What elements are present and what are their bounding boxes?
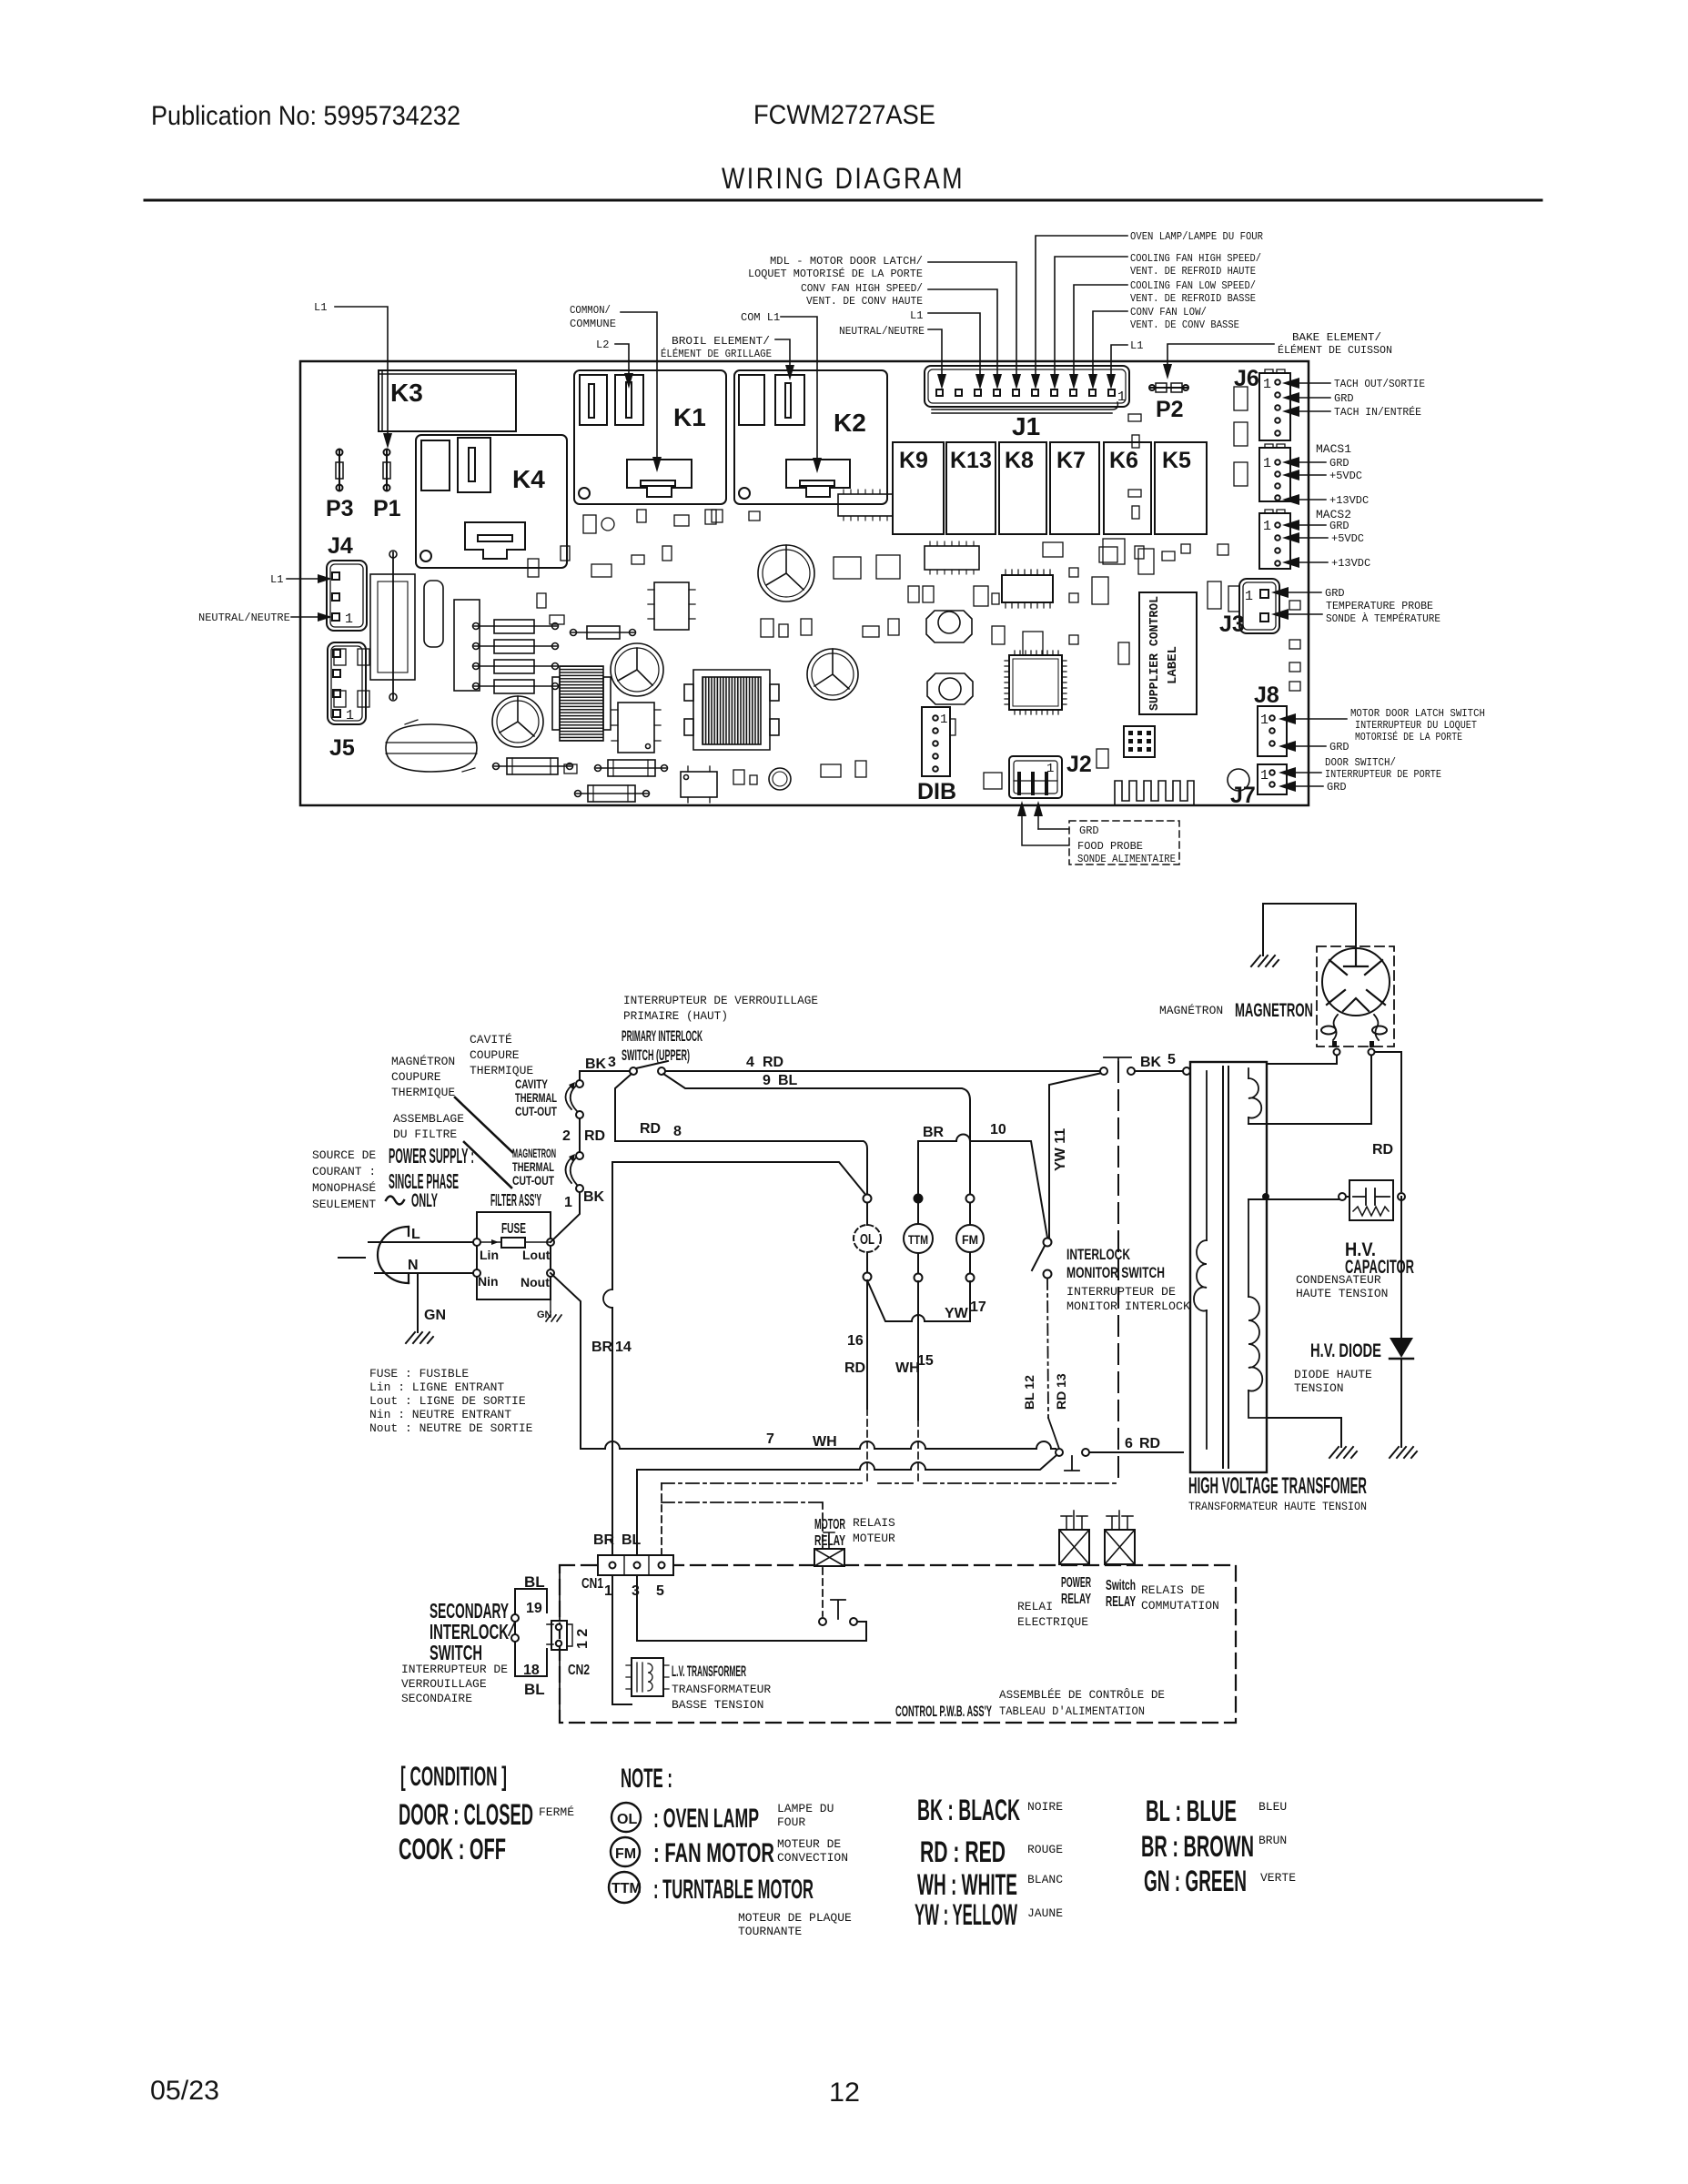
svg-text:1: 1 xyxy=(345,612,353,627)
jumper wire W1 xyxy=(389,551,397,701)
svg-text:NEUTRAL/NEUTRE: NEUTRAL/NEUTRE xyxy=(839,325,925,338)
svg-text:VENT. DE REFROID BASSE: VENT. DE REFROID BASSE xyxy=(1130,292,1256,305)
svg-text:J6: J6 xyxy=(1234,366,1259,391)
svg-text:DOOR : CLOSED: DOOR : CLOSED xyxy=(399,1798,533,1831)
label L1 at J4 xyxy=(270,573,332,586)
label RD 8 xyxy=(640,1121,682,1139)
svg-text:1: 1 xyxy=(1263,519,1271,534)
label ASSEMBLEE DE CONTROLE xyxy=(999,1688,1165,1718)
relay K6 xyxy=(1104,442,1151,534)
svg-text:INTERLOCK: INTERLOCK xyxy=(1066,1246,1131,1263)
header group xyxy=(145,100,1541,200)
svg-text:K5: K5 xyxy=(1162,448,1191,473)
svg-text:COOK : OFF: COOK : OFF xyxy=(399,1833,506,1865)
svg-text:RD: RD xyxy=(1372,1142,1393,1158)
label MAGNETRON xyxy=(1159,1000,1313,1021)
svg-text:NOIRE: NOIRE xyxy=(1027,1800,1063,1814)
svg-text:MONITOR SWITCH: MONITOR SWITCH xyxy=(1066,1264,1165,1281)
svg-text:MAGNETRON: MAGNETRON xyxy=(512,1146,556,1160)
svg-text:BR : BROWN: BR : BROWN xyxy=(1141,1830,1254,1863)
svg-text:TENSION: TENSION xyxy=(1294,1381,1344,1395)
capacitor C6 film xyxy=(454,600,480,691)
svg-text:BRUN: BRUN xyxy=(1258,1834,1287,1847)
label MAGNETRON COUPURE THERMIQUE xyxy=(391,1055,455,1099)
svg-text:RD: RD xyxy=(844,1360,865,1376)
label GRD J3 xyxy=(1271,587,1345,600)
high voltage transformer xyxy=(1190,1062,1267,1472)
svg-text:TRANSFORMATEUR: TRANSFORMATEUR xyxy=(672,1683,771,1696)
svg-text:ÉLÉMENT DE GRILLAGE: ÉLÉMENT DE GRILLAGE xyxy=(661,347,772,360)
svg-text:COUPURE: COUPURE xyxy=(470,1048,520,1062)
wire BR 14 vertical xyxy=(612,1162,613,1556)
wire GN to ground xyxy=(418,1273,446,1332)
wire capacitor to diode xyxy=(1400,1197,1402,1338)
connector J1 xyxy=(925,366,1129,440)
relay K7 xyxy=(1050,442,1099,534)
svg-text:Lin : LIGNE ENTRANT: Lin : LIGNE ENTRANT xyxy=(369,1380,504,1394)
svg-text:INTERRUPTEUR DU LOQUET: INTERRUPTEUR DU LOQUET xyxy=(1355,719,1477,732)
svg-text:19: 19 xyxy=(526,1601,542,1616)
svg-text:10: 10 xyxy=(990,1122,1006,1137)
wire 4 RD top bus xyxy=(665,1070,1100,1072)
svg-text:K6: K6 xyxy=(1109,448,1138,473)
svg-text:L: L xyxy=(411,1227,420,1242)
svg-text:WH: WH xyxy=(813,1434,837,1450)
svg-text:GRD: GRD xyxy=(1334,392,1354,405)
svg-text:1: 1 xyxy=(1260,713,1269,728)
svg-text:MONOPHASÉ: MONOPHASÉ xyxy=(312,1181,376,1195)
svg-text:1: 1 xyxy=(1245,589,1253,604)
svg-text:SWITCH (UPPER): SWITCH (UPPER) xyxy=(622,1046,690,1064)
svg-text:[ CONDITION ]: [ CONDITION ] xyxy=(400,1762,507,1792)
relay K13 xyxy=(946,442,996,534)
svg-text:BL: BL xyxy=(622,1532,642,1548)
svg-text:POWER: POWER xyxy=(1061,1575,1091,1591)
svg-text:BL: BL xyxy=(778,1073,798,1088)
svg-text:OVEN LAMP/LAMPE DU FOUR: OVEN LAMP/LAMPE DU FOUR xyxy=(1130,230,1263,243)
label NEUTRAL/NEUTRE at J4 xyxy=(198,612,332,624)
svg-text:K7: K7 xyxy=(1056,448,1086,473)
svg-text:1 2: 1 2 xyxy=(575,1629,591,1649)
6RD switch contacts xyxy=(1056,1449,1089,1471)
optocoupler U5 xyxy=(681,766,717,803)
svg-text:TACH OUT/SORTIE: TACH OUT/SORTIE xyxy=(1334,378,1425,390)
svg-text:3: 3 xyxy=(608,1055,616,1070)
connector J8 xyxy=(1254,682,1287,756)
wire between cutouts xyxy=(579,1118,581,1152)
svg-text:K9: K9 xyxy=(899,448,928,473)
label 4 RD xyxy=(746,1055,783,1070)
relay K9 xyxy=(893,442,944,534)
svg-text:K2: K2 xyxy=(834,409,866,437)
control PWB dashed box xyxy=(560,1565,1236,1723)
svg-text:VENT. DE CONV BASSE: VENT. DE CONV BASSE xyxy=(1130,318,1239,331)
svg-text:H.V. DIODE: H.V. DIODE xyxy=(1310,1340,1381,1361)
GRD pad circle xyxy=(1228,769,1249,791)
svg-text:GN: GN xyxy=(424,1308,446,1323)
magnetron filament wires xyxy=(1270,1056,1371,1124)
svg-text:HAUTE TENSION: HAUTE TENSION xyxy=(1296,1287,1388,1300)
label 6 RD xyxy=(1125,1436,1160,1451)
resistor R2 xyxy=(473,640,559,653)
svg-text:ROUGE: ROUGE xyxy=(1027,1843,1063,1856)
svg-text:K3: K3 xyxy=(390,379,423,407)
svg-text:FUSE: FUSE xyxy=(501,1221,526,1237)
svg-text:SOURCE DE: SOURCE DE xyxy=(312,1148,376,1162)
svg-text:RD: RD xyxy=(584,1128,605,1144)
wire BK5 to transformer xyxy=(1135,1070,1187,1072)
svg-text:BR: BR xyxy=(591,1340,613,1355)
svg-text:GRD: GRD xyxy=(1079,824,1099,837)
label SECONDARY INTERLOCK SWITCH xyxy=(430,1599,509,1664)
label ASSEMBLAGE DU FILTRE xyxy=(393,1112,464,1141)
callout COM L1 to K2 xyxy=(741,311,822,473)
svg-text:BR: BR xyxy=(923,1125,945,1140)
toroid L4 xyxy=(927,673,973,704)
svg-text:RELAY: RELAY xyxy=(814,1533,845,1549)
svg-text:CN1: CN1 xyxy=(581,1576,603,1592)
wire top bus to primary interlock xyxy=(580,1071,630,1080)
callout L1 right xyxy=(1107,339,1143,389)
svg-text:8: 8 xyxy=(673,1124,682,1139)
svg-text:OL: OL xyxy=(617,1812,637,1827)
svg-text:K1: K1 xyxy=(673,403,706,431)
wire control box left edge through CN2 xyxy=(559,1565,561,1723)
svg-text:N: N xyxy=(408,1258,419,1273)
microcontroller U1 xyxy=(1005,651,1066,714)
power relay xyxy=(1059,1511,1089,1564)
callout L2 to K1 slot xyxy=(596,339,633,389)
wire WH 15 down xyxy=(917,1281,919,1420)
label CAVITE COUPURE THERMIQUE xyxy=(470,1033,533,1077)
svg-text:MOTORISÉ DE LA PORTE: MOTORISÉ DE LA PORTE xyxy=(1355,730,1462,743)
labels 16 RD xyxy=(844,1333,865,1376)
svg-text:J5: J5 xyxy=(329,735,355,761)
svg-text:MDL - MOTOR DOOR LATCH/: MDL - MOTOR DOOR LATCH/ xyxy=(770,255,923,268)
svg-text:YW : YELLOW: YW : YELLOW xyxy=(915,1898,1017,1931)
relay K2 xyxy=(734,370,887,504)
label H.V. CAPACITOR xyxy=(1345,1239,1414,1278)
switch relay xyxy=(1105,1511,1135,1564)
label GRD J7 xyxy=(1279,781,1347,794)
svg-text:LABEL: LABEL xyxy=(1166,646,1180,684)
svg-text:MOTOR: MOTOR xyxy=(814,1517,845,1532)
svg-text:FOOD PROBE: FOOD PROBE xyxy=(1077,840,1143,853)
connector DIB xyxy=(917,707,956,804)
wire filament secondary xyxy=(1248,1064,1371,1124)
magnetron top ground wire xyxy=(1263,904,1356,955)
IC U2 16-pin xyxy=(1002,570,1053,608)
svg-text:17: 17 xyxy=(970,1299,986,1315)
labels 19 18 BL BL xyxy=(523,1573,545,1698)
svg-text:18: 18 xyxy=(523,1663,540,1678)
connector J2 xyxy=(1009,752,1092,798)
small parts row1 xyxy=(528,546,999,606)
svg-text:MOTEUR DE PLAQUE: MOTEUR DE PLAQUE xyxy=(738,1911,852,1925)
svg-text:Lin: Lin xyxy=(480,1248,499,1262)
capacitor C3 electrolytic xyxy=(492,696,543,747)
svg-text:ASSEMBLAGE: ASSEMBLAGE xyxy=(393,1112,464,1126)
svg-text:L1: L1 xyxy=(910,309,923,322)
svg-text:CONTROL P.W.B. ASS'Y: CONTROL P.W.B. ASS'Y xyxy=(895,1703,992,1720)
connector MACS1 xyxy=(1259,444,1290,501)
HV secondary winding xyxy=(1248,1199,1267,1418)
filament winding xyxy=(1248,1068,1249,1124)
wire BL 12 RD 13 dash-dot xyxy=(1047,1279,1048,1418)
svg-text:BAKE ELEMENT/: BAKE ELEMENT/ xyxy=(1292,331,1381,344)
label GRD J8 xyxy=(1279,741,1349,753)
label YW 17 xyxy=(945,1299,986,1321)
connector J3 xyxy=(1219,579,1279,637)
label RELAI ELECTRIQUE xyxy=(1017,1600,1088,1629)
svg-text:1: 1 xyxy=(1263,377,1271,392)
label BK 3 xyxy=(585,1055,616,1072)
svg-text:LAMPE DU: LAMPE DU xyxy=(777,1802,834,1815)
label RELAIS DE COMMUTATION xyxy=(1141,1583,1219,1613)
header rule xyxy=(145,199,1541,202)
svg-text:RD : RED: RD : RED xyxy=(920,1835,1006,1868)
svg-text:YW: YW xyxy=(945,1306,969,1321)
magnetron thermal cut-out switch xyxy=(566,1152,584,1192)
test pin P3 xyxy=(326,450,354,522)
svg-text:GRD: GRD xyxy=(1325,587,1345,600)
bus wire 7 WH xyxy=(581,1441,1056,1449)
wire BR to OL junction xyxy=(612,1162,867,1197)
callout NEUTRAL/NEUTRE to J1 xyxy=(839,325,946,389)
label GRD J6 xyxy=(1282,392,1354,405)
svg-text:BROIL ELEMENT/: BROIL ELEMENT/ xyxy=(672,335,770,348)
svg-text:THERMIQUE: THERMIQUE xyxy=(470,1064,533,1077)
svg-text:+13VDC: +13VDC xyxy=(1331,557,1370,570)
label DOOR SWITCH J7 xyxy=(1279,756,1441,781)
svg-text:K8: K8 xyxy=(1005,448,1034,473)
svg-text:Nout : NEUTRE DE SORTIE: Nout : NEUTRE DE SORTIE xyxy=(369,1421,533,1435)
svg-text:COMMON/: COMMON/ xyxy=(570,304,611,317)
svg-text:NOTE :: NOTE : xyxy=(621,1764,672,1794)
interlock monitor switch xyxy=(1032,1239,1052,1279)
svg-text:COMMUTATION: COMMUTATION xyxy=(1141,1599,1219,1613)
svg-text:6: 6 xyxy=(1125,1436,1133,1451)
resistor R8 power xyxy=(575,785,650,802)
svg-text:K4: K4 xyxy=(512,465,545,493)
label INTERLOCK MONITOR SWITCH xyxy=(1066,1246,1165,1281)
svg-text:MOTEUR: MOTEUR xyxy=(853,1532,895,1545)
svg-text:HIGH VOLTAGE TRANSFOMER: HIGH VOLTAGE TRANSFOMER xyxy=(1188,1473,1367,1499)
wire Nout to BR14 join xyxy=(551,1273,581,1449)
svg-text:+5VDC: +5VDC xyxy=(1329,470,1362,482)
label +13VDC MACS2 xyxy=(1282,557,1370,570)
svg-text:CN2: CN2 xyxy=(568,1663,590,1678)
wire pushbutton loop xyxy=(637,1575,866,1641)
svg-text:GRD: GRD xyxy=(1329,520,1349,532)
magnetron xyxy=(1317,946,1394,1056)
svg-text:GRD: GRD xyxy=(1329,457,1349,470)
svg-text:COM L1: COM L1 xyxy=(741,311,780,324)
svg-text:DIODE HAUTE: DIODE HAUTE xyxy=(1294,1368,1372,1381)
pointer assemblage xyxy=(464,1142,511,1188)
svg-text:RD: RD xyxy=(763,1055,783,1070)
svg-text:: OVEN LAMP: : OVEN LAMP xyxy=(653,1804,759,1834)
svg-text:NEUTRAL/NEUTRE: NEUTRAL/NEUTRE xyxy=(198,612,290,624)
relay K10 tall xyxy=(370,574,415,680)
svg-text:MOTOR DOOR LATCH SWITCH: MOTOR DOOR LATCH SWITCH xyxy=(1350,707,1485,720)
svg-text:INTERRUPTEUR DE: INTERRUPTEUR DE xyxy=(1066,1285,1176,1299)
wire transformer frame ground xyxy=(1267,1418,1341,1447)
small parts row3 xyxy=(564,387,1248,789)
svg-text:1: 1 xyxy=(940,713,947,727)
svg-text:FM: FM xyxy=(962,1232,978,1247)
svg-text:POWER SUPPLY :: POWER SUPPLY : xyxy=(389,1144,474,1168)
svg-text:L1: L1 xyxy=(270,573,283,586)
svg-text:THERMAL: THERMAL xyxy=(512,1159,554,1174)
svg-text:COUPURE: COUPURE xyxy=(391,1070,441,1084)
svg-text:RELAIS DE: RELAIS DE xyxy=(1141,1583,1205,1597)
wire RD 8 xyxy=(615,1074,867,1195)
fuse F1 xyxy=(480,1241,551,1243)
label GRD MACS1 xyxy=(1282,457,1349,470)
svg-text:MAGNETRON: MAGNETRON xyxy=(1235,1000,1313,1021)
svg-text:ASSEMBLÉE DE CONTRÔLE DE: ASSEMBLÉE DE CONTRÔLE DE xyxy=(999,1688,1165,1702)
svg-text:Nin : NEUTRE ENTRANT: Nin : NEUTRE ENTRANT xyxy=(369,1408,511,1421)
wire diode to ground xyxy=(1400,1359,1402,1447)
svg-text:7: 7 xyxy=(766,1431,774,1447)
labels CN1 1 3 5 xyxy=(581,1576,664,1599)
svg-text:ELECTRIQUE: ELECTRIQUE xyxy=(1017,1615,1088,1629)
label MAGNETRON THERMAL CUT-OUT xyxy=(512,1146,556,1188)
svg-text:P3: P3 xyxy=(326,496,354,521)
svg-text:RELAI: RELAI xyxy=(1017,1600,1053,1613)
svg-text:5: 5 xyxy=(656,1583,664,1599)
label 2 RD xyxy=(562,1128,605,1144)
IC U6 xyxy=(925,541,979,574)
svg-text:TTM: TTM xyxy=(612,1881,642,1896)
svg-text:RD 13: RD 13 xyxy=(1054,1373,1068,1410)
svg-text:DOOR SWITCH/: DOOR SWITCH/ xyxy=(1325,756,1396,769)
pointer magnetron coupure xyxy=(455,1097,512,1152)
svg-text:K13: K13 xyxy=(950,448,992,473)
svg-text:Switch: Switch xyxy=(1106,1578,1136,1593)
wire pushbutton feed xyxy=(822,1502,824,1616)
labels 7 WH xyxy=(766,1431,837,1450)
wire TTM feed xyxy=(917,1141,919,1195)
svg-text:BR: BR xyxy=(593,1532,615,1548)
fuse legend text xyxy=(369,1367,533,1435)
svg-text:SEULEMENT: SEULEMENT xyxy=(312,1198,376,1211)
label INTERRUPTEUR DE VERROUILLAGE SECONDAIRE xyxy=(401,1663,508,1705)
svg-text:THERMIQUE: THERMIQUE xyxy=(391,1086,455,1099)
svg-text:1: 1 xyxy=(604,1583,612,1599)
varistor RV1 xyxy=(386,720,477,772)
dash-dot crossover xyxy=(662,1482,1118,1484)
capacitor C5 film xyxy=(424,581,443,647)
label TRANSFORMATEUR BASSE TENSION xyxy=(672,1683,771,1712)
svg-text:FOUR: FOUR xyxy=(777,1815,805,1829)
svg-text:INTERRUPTEUR DE PORTE: INTERRUPTEUR DE PORTE xyxy=(1325,768,1441,781)
callout COOLING FAN HIGH SPEED xyxy=(1050,252,1261,389)
svg-text:J1: J1 xyxy=(1012,412,1040,440)
svg-text:9: 9 xyxy=(763,1073,771,1088)
svg-text:CAVITY: CAVITY xyxy=(515,1077,548,1091)
svg-text:ÉLÉMENT DE CUISSON: ÉLÉMENT DE CUISSON xyxy=(1278,343,1392,357)
label INTERRUPTEUR DE VERROUILLAGE PRIMAIRE (HAUT) xyxy=(623,994,818,1023)
svg-text:3: 3 xyxy=(632,1583,640,1599)
filter assembly box xyxy=(473,1212,554,1299)
cavity thermal cut-out switch xyxy=(566,1080,584,1118)
ground at filter xyxy=(537,1299,561,1321)
svg-text:PRIMAIRE (HAUT): PRIMAIRE (HAUT) xyxy=(623,1009,728,1023)
svg-text:RD: RD xyxy=(640,1121,661,1137)
edge tabs right xyxy=(1289,601,1300,691)
PCB board outline xyxy=(300,361,1309,805)
svg-text:12: 12 xyxy=(829,2078,860,2108)
legend OL xyxy=(612,1802,834,1834)
svg-text:CONV FAN HIGH SPEED/: CONV FAN HIGH SPEED/ xyxy=(801,282,923,295)
label RELAIS MOTEUR xyxy=(853,1516,895,1545)
svg-text:GN : GREEN: GN : GREEN xyxy=(1144,1865,1247,1897)
svg-text:PRIMARY INTERLOCK: PRIMARY INTERLOCK xyxy=(622,1027,702,1045)
relay K3 xyxy=(379,370,516,431)
svg-text:FILTER ASS'Y: FILTER ASS'Y xyxy=(490,1191,541,1209)
wire BL return to CN1 pin3 xyxy=(637,1456,1056,1555)
labels WH 15 xyxy=(895,1353,934,1376)
oven lamp OL xyxy=(854,1195,881,1281)
svg-text:1: 1 xyxy=(1260,768,1269,784)
svg-text:1: 1 xyxy=(1046,762,1054,776)
label CONDENSATEUR HAUTE TENSION xyxy=(1296,1273,1388,1300)
label POWER SUPPLY : SINGLE PHASE ONLY xyxy=(386,1144,474,1211)
label TACH OUT/SORTIE xyxy=(1282,378,1425,390)
svg-text:RD: RD xyxy=(1139,1436,1160,1451)
supplier control label box xyxy=(1139,592,1197,714)
label +13VDC MACS1 xyxy=(1282,494,1369,507)
motor relay xyxy=(814,1532,844,1566)
svg-text:SONDE À TEMPÉRATURE: SONDE À TEMPÉRATURE xyxy=(1326,612,1440,625)
callout MDL motor door latch xyxy=(748,255,1021,389)
callout BAKE ELEMENT to P2 xyxy=(1163,331,1392,379)
label GRD MACS2 xyxy=(1282,520,1349,532)
connector J6 xyxy=(1234,366,1290,440)
svg-text:SECONDAIRE: SECONDAIRE xyxy=(401,1692,472,1705)
svg-text:MONITOR INTERLOCK: MONITOR INTERLOCK xyxy=(1066,1299,1190,1313)
test pin P1 xyxy=(373,450,401,522)
svg-text:INTERRUPTEUR DE VERROUILLAGE: INTERRUPTEUR DE VERROUILLAGE xyxy=(623,994,818,1007)
wire BR to LV transformer xyxy=(612,1575,632,1704)
svg-text:Lout : LIGNE DE SORTIE: Lout : LIGNE DE SORTIE xyxy=(369,1394,526,1408)
svg-text:J7: J7 xyxy=(1230,783,1256,808)
relay K4 xyxy=(416,435,567,568)
svg-text:L1: L1 xyxy=(1130,339,1143,352)
callout BROIL ELEMENT to K2 xyxy=(661,335,794,380)
heatsink fins xyxy=(1115,781,1194,804)
svg-text:BK : BLACK: BK : BLACK xyxy=(917,1794,1020,1826)
callout CONV FAN LOW xyxy=(1088,306,1239,389)
label POWER RELAY xyxy=(1061,1575,1091,1607)
label PRIMARY INTERLOCK SWITCH (UPPER) xyxy=(622,1027,702,1064)
resistor R1 xyxy=(473,620,559,633)
transformer T1 xyxy=(684,670,779,750)
legend FM xyxy=(611,1837,848,1868)
connector J7 xyxy=(1230,764,1287,808)
svg-text:WIRING DIAGRAM: WIRING DIAGRAM xyxy=(722,162,965,195)
label MOTOR RELAY xyxy=(814,1517,845,1549)
wire CN1 pin5 dashed up xyxy=(661,1483,662,1555)
label +5VDC MACS2 xyxy=(1282,532,1364,545)
svg-text:COMMUNE: COMMUNE xyxy=(570,318,616,330)
diode D1 xyxy=(334,649,369,707)
svg-text:14: 14 xyxy=(615,1340,632,1355)
svg-text:Lout: Lout xyxy=(522,1248,551,1262)
svg-text:MAGNÉTRON: MAGNÉTRON xyxy=(1159,1004,1223,1017)
